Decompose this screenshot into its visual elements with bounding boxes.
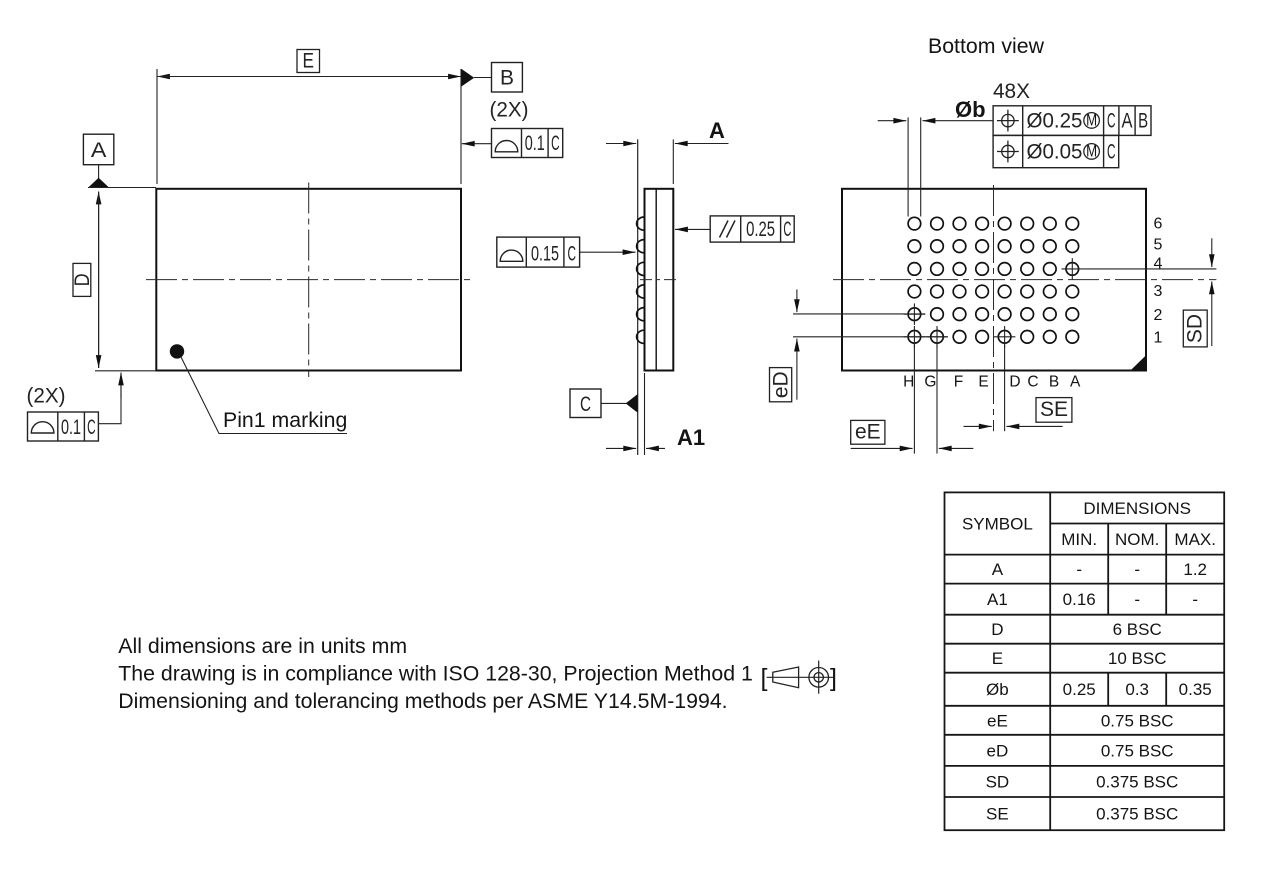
D extension line bottom xyxy=(95,370,156,372)
FCF parallel 0.25 C xyxy=(675,216,794,242)
svg-text:A: A xyxy=(709,118,725,143)
svg-text:A: A xyxy=(91,139,107,162)
SD dimension arrows xyxy=(1211,238,1213,267)
svg-text:C: C xyxy=(1107,110,1116,133)
FCF position 0.05 M C (row 2) xyxy=(993,135,1119,167)
svg-text:Ø0.25: Ø0.25 xyxy=(1027,110,1083,133)
crosshair target balls xyxy=(904,258,1084,348)
solder balls (side) xyxy=(637,217,645,343)
svg-text:48X: 48X xyxy=(993,80,1030,103)
row labels xyxy=(1154,216,1163,347)
datum B triangle xyxy=(461,69,474,87)
svg-text:Pin1 marking: Pin1 marking xyxy=(223,408,347,432)
package outline (bottom view) xyxy=(842,189,1146,371)
eE extension lines xyxy=(913,345,915,454)
A extension line right xyxy=(672,139,674,184)
svg-text:eD: eD xyxy=(770,371,793,398)
svg-text:eD: eD xyxy=(987,741,1009,760)
SE dimension arrows xyxy=(964,425,992,427)
eD dimension arrows xyxy=(796,289,798,312)
svg-text:Dimensioning and tolerancing m: Dimensioning and tolerancing methods per… xyxy=(118,689,727,713)
svg-text:0.75 BSC: 0.75 BSC xyxy=(1101,711,1174,730)
svg-text:-: - xyxy=(1134,590,1140,609)
svg-text:2: 2 xyxy=(1154,307,1163,324)
A dimension line left part xyxy=(606,143,636,145)
A1 dimension left arrow xyxy=(606,447,636,449)
svg-text:(2X): (2X) xyxy=(27,385,66,408)
svg-text:DIMENSIONS: DIMENSIONS xyxy=(1083,499,1191,518)
svg-text:Ø0.05: Ø0.05 xyxy=(1027,141,1083,164)
svg-text:eE: eE xyxy=(987,711,1008,730)
D label box xyxy=(73,263,91,296)
D extension line top xyxy=(88,187,156,189)
eE dimension arrows xyxy=(851,447,913,449)
svg-text:1: 1 xyxy=(1154,329,1163,346)
svg-text:NOM.: NOM. xyxy=(1115,530,1159,549)
E dimension line xyxy=(157,76,461,78)
svg-text:G: G xyxy=(924,374,936,391)
svg-text:0.35: 0.35 xyxy=(1179,680,1212,699)
svg-text:All dimensions are in units mm: All dimensions are in units mm xyxy=(118,634,407,658)
package body (side view) xyxy=(645,189,674,371)
svg-text:-: - xyxy=(1192,590,1198,609)
svg-text:0.25: 0.25 xyxy=(1063,680,1096,699)
svg-text:0.25: 0.25 xyxy=(746,218,775,241)
Ob extension lines (ball H6 tangents) xyxy=(907,117,909,216)
FCF position 0.25 M CAB (row 1) xyxy=(993,106,1151,136)
E label box xyxy=(297,50,320,73)
svg-text:C: C xyxy=(551,132,560,155)
seating plane line xyxy=(637,139,639,455)
A1 dimension right arrow xyxy=(646,447,665,449)
svg-text:C: C xyxy=(1107,141,1116,164)
SD leader line from ball A4 xyxy=(1083,268,1216,270)
svg-text:D: D xyxy=(991,620,1003,639)
svg-text:SD: SD xyxy=(1183,314,1206,343)
eE label box xyxy=(851,420,885,444)
svg-text:-: - xyxy=(1076,560,1082,579)
svg-text:D: D xyxy=(1009,374,1020,391)
svg-text:H: H xyxy=(903,374,914,391)
svg-text:Øb: Øb xyxy=(986,680,1009,699)
D dimension line xyxy=(98,192,100,369)
svg-text:]: ] xyxy=(830,664,837,692)
eD label box xyxy=(770,368,792,402)
svg-text:SE: SE xyxy=(986,805,1009,824)
projection symbol circles xyxy=(809,668,829,688)
svg-text:C: C xyxy=(783,218,791,241)
svg-text:0.75 BSC: 0.75 BSC xyxy=(1101,741,1174,760)
FCF profile 0.1 C (bottom left) xyxy=(28,373,122,442)
svg-text:0.375 BSC: 0.375 BSC xyxy=(1096,805,1178,824)
svg-text:0.1: 0.1 xyxy=(61,416,81,439)
E extension line left xyxy=(156,69,158,184)
svg-text:A: A xyxy=(992,560,1004,579)
vertical centerline xyxy=(308,183,310,378)
datum C leader xyxy=(601,402,627,404)
svg-text:4: 4 xyxy=(1154,256,1163,273)
svg-text:D: D xyxy=(71,273,94,286)
svg-text:6: 6 xyxy=(1154,216,1163,233)
svg-text:C: C xyxy=(1027,374,1038,391)
datum C triangle xyxy=(626,394,638,413)
side view centerline xyxy=(640,279,677,281)
svg-text:M: M xyxy=(1086,143,1097,161)
vertical centerline xyxy=(993,185,995,431)
projection symbol frustum xyxy=(773,667,799,688)
datum A triangle xyxy=(89,178,109,188)
svg-text:C: C xyxy=(87,416,96,439)
svg-text:5: 5 xyxy=(1154,236,1163,253)
svg-text:E: E xyxy=(302,50,314,73)
pin A1 corner chamfer triangle xyxy=(1131,356,1145,369)
svg-text:A1: A1 xyxy=(987,590,1008,609)
svg-text:[: [ xyxy=(761,664,768,692)
svg-text:MIN.: MIN. xyxy=(1061,530,1097,549)
svg-text:E: E xyxy=(992,649,1003,668)
svg-text:A: A xyxy=(1122,110,1133,133)
svg-text:SD: SD xyxy=(986,773,1010,792)
svg-text:0.375 BSC: 0.375 BSC xyxy=(1096,773,1178,792)
svg-text:10 BSC: 10 BSC xyxy=(1108,649,1167,668)
svg-text:-: - xyxy=(1134,560,1140,579)
svg-text:6 BSC: 6 BSC xyxy=(1113,620,1162,639)
svg-text:Bottom view: Bottom view xyxy=(928,34,1045,58)
Ob dimension arrows xyxy=(878,120,907,122)
horizontal centerline xyxy=(833,279,1216,281)
svg-text:F: F xyxy=(954,374,963,391)
SD label box xyxy=(1183,310,1207,347)
svg-text:M: M xyxy=(1086,112,1097,130)
svg-text:eE: eE xyxy=(855,421,881,444)
SE extension line (ball D1) xyxy=(1004,345,1006,432)
datum B box xyxy=(492,63,523,93)
svg-text:0.3: 0.3 xyxy=(1125,680,1149,699)
horizontal centerline xyxy=(146,279,472,281)
eD extension lines xyxy=(793,313,925,315)
svg-text:B: B xyxy=(500,67,514,90)
svg-text:(2X): (2X) xyxy=(490,99,529,122)
svg-text:E: E xyxy=(978,374,988,391)
datum A leader xyxy=(98,165,100,180)
svg-text:0.1: 0.1 xyxy=(525,132,545,155)
svg-text:B: B xyxy=(1138,110,1148,133)
svg-text:A: A xyxy=(1070,374,1081,391)
svg-text:C: C xyxy=(580,393,591,416)
Pin1 marking dot xyxy=(170,344,184,358)
Pin1 leader xyxy=(181,357,347,434)
E extension line right xyxy=(460,69,462,184)
svg-text:MAX.: MAX. xyxy=(1174,530,1216,549)
datum C box xyxy=(570,389,601,418)
svg-text:A1: A1 xyxy=(677,425,705,450)
A1 extension line (body bottom) xyxy=(644,373,646,455)
position symbol row2 xyxy=(997,141,1019,163)
FCF profile 0.15 C xyxy=(497,237,636,267)
svg-text:The drawing is in compliance w: The drawing is in compliance with ISO 12… xyxy=(118,662,753,686)
FCF profile 0.1 C (top right) xyxy=(462,129,563,158)
svg-text:B: B xyxy=(1049,374,1059,391)
A dimension line right part xyxy=(675,143,729,145)
svg-text:0.16: 0.16 xyxy=(1063,590,1096,609)
svg-text:SYMBOL: SYMBOL xyxy=(962,515,1033,534)
datum B leader xyxy=(474,77,492,79)
svg-text:C: C xyxy=(567,243,576,266)
svg-text:1.2: 1.2 xyxy=(1183,560,1207,579)
svg-text:0.15: 0.15 xyxy=(531,243,559,266)
package body outline (top view) xyxy=(156,189,461,371)
svg-text:3: 3 xyxy=(1154,283,1163,300)
column labels xyxy=(903,374,1081,391)
ball grid 8x6 (bottom view) xyxy=(908,217,1078,343)
datum A box xyxy=(83,134,113,165)
SE label box xyxy=(1036,398,1072,423)
svg-text:SE: SE xyxy=(1040,398,1068,421)
body inner line xyxy=(655,189,657,371)
position symbol row1 xyxy=(997,110,1019,132)
svg-text:Øb: Øb xyxy=(955,97,986,122)
